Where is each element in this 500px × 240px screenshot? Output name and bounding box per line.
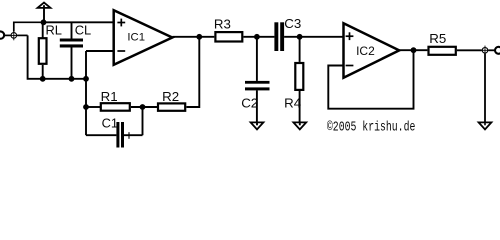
wire output jack to big circle bbox=[488, 49, 495, 51]
wire IC2 minus input feedback bbox=[328, 50, 413, 108]
svg-text:C2: C2 bbox=[241, 95, 258, 110]
capacitor C2 plate2 bbox=[245, 87, 270, 90]
wire C2 to ground bbox=[256, 90, 258, 125]
output jack big circle bbox=[495, 47, 500, 54]
wire node vertical bbox=[85, 51, 87, 135]
capacitor C2 plate1 bbox=[245, 81, 270, 84]
input jack cross arms bbox=[9, 31, 18, 41]
svg-text:R4: R4 bbox=[284, 95, 301, 110]
wire RL bottom bbox=[42, 65, 44, 79]
wire input horizontal bbox=[5, 34, 11, 36]
wire C1 left bbox=[86, 134, 116, 136]
wire R3 to C3 bbox=[244, 36, 275, 38]
node dot bus right bbox=[83, 76, 89, 82]
wire CL top bbox=[71, 22, 73, 38]
capacitor C1 plus mark bbox=[126, 132, 132, 139]
output jack cross arms bbox=[480, 46, 489, 56]
wire IC1 output bbox=[173, 36, 215, 38]
node dot CL bus bbox=[69, 76, 75, 82]
wire R5 to output jack bbox=[457, 49, 482, 51]
svg-text:C1: C1 bbox=[102, 115, 118, 130]
wire RL top bbox=[42, 22, 44, 38]
node dot R1R2 bbox=[140, 104, 146, 110]
capacitor CL plate1 bbox=[60, 39, 83, 42]
svg-text:CL: CL bbox=[75, 22, 91, 37]
resistor R4 bbox=[295, 63, 303, 90]
node junction dot rail bbox=[41, 19, 47, 25]
op-amp IC2 bbox=[344, 23, 400, 77]
wire R1 left bbox=[86, 106, 100, 108]
op-amp IC1 minus sign bbox=[117, 50, 125, 52]
svg-text:R1: R1 bbox=[101, 89, 118, 104]
node dot R2 riser bbox=[196, 34, 202, 40]
input jack J1 cross circle bbox=[11, 33, 17, 39]
wire C2 drop bbox=[256, 37, 258, 81]
capacitor C3 plate2 bbox=[280, 22, 284, 51]
wire CL bottom bbox=[71, 48, 73, 79]
op-amp IC1 bbox=[114, 10, 173, 65]
wire minus input IC1 bbox=[86, 50, 114, 52]
input jack J1 big circle bbox=[0, 31, 4, 38]
wire input cross vertical to rail bbox=[14, 22, 44, 31]
op-amp IC1 plus sign bbox=[117, 19, 125, 27]
node dot IC2 out bbox=[411, 47, 417, 53]
wire input drop bbox=[28, 35, 86, 78]
svg-text:IC1: IC1 bbox=[127, 32, 145, 44]
capacitor C3 plate1 bbox=[274, 22, 278, 51]
node dot RL bus bbox=[40, 76, 46, 82]
node dot C2 bbox=[254, 34, 260, 40]
svg-text:RL: RL bbox=[46, 22, 62, 37]
svg-text:C3: C3 bbox=[284, 16, 301, 31]
capacitor CL plate2 bbox=[60, 44, 83, 47]
resistor R3 bbox=[215, 32, 242, 41]
capacitor C1 plate1 bbox=[116, 122, 119, 148]
node dot R4 bbox=[297, 34, 303, 40]
resistor R5 bbox=[429, 47, 456, 55]
output jack cross circle bbox=[482, 48, 488, 54]
resistor R2 bbox=[158, 103, 185, 110]
wire IC2 output bbox=[399, 49, 427, 51]
wire R4 drop bbox=[299, 37, 301, 62]
svg-text:R2: R2 bbox=[162, 89, 179, 104]
wire R2 right riser bbox=[186, 37, 199, 107]
wire input horizontal right bbox=[17, 34, 28, 36]
svg-text:R3: R3 bbox=[214, 17, 231, 32]
ground R4 bbox=[293, 122, 306, 129]
node dot R1 left bbox=[83, 104, 89, 110]
op-amp IC2 plus sign bbox=[346, 32, 354, 40]
wire C1 right bbox=[124, 134, 143, 136]
wire R1 right bbox=[131, 106, 157, 108]
svg-text:R5: R5 bbox=[429, 31, 446, 46]
svg-text:©2005 krishu.de: ©2005 krishu.de bbox=[327, 121, 416, 136]
wire R4 to ground bbox=[299, 91, 301, 126]
op-amp IC2 minus sign bbox=[346, 65, 354, 67]
resistor RL bbox=[39, 38, 47, 64]
capacitor C1 plate2 bbox=[121, 122, 124, 148]
ground C2 bbox=[251, 122, 264, 129]
wire top rail bbox=[44, 21, 114, 23]
wire C3 to IC2 bbox=[284, 36, 343, 38]
wire C1 right riser bbox=[142, 107, 144, 135]
ground output bbox=[479, 122, 492, 129]
resistor R1 bbox=[101, 103, 130, 111]
svg-text:IC2: IC2 bbox=[356, 44, 375, 58]
wire vcc stem bbox=[43, 5, 45, 22]
vcc symbol arrow bbox=[38, 3, 51, 8]
wire output ground drop bbox=[484, 54, 486, 126]
